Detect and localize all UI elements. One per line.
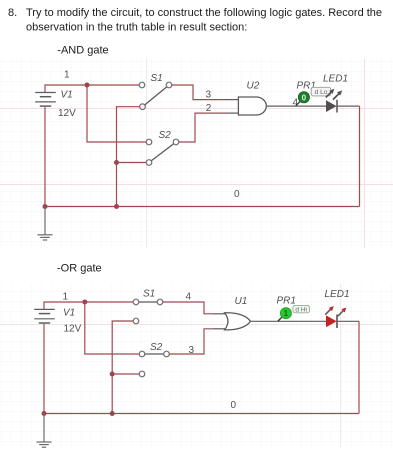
LED LED1 (off) [326,89,342,113]
wire battery minus down to ground rail [44,107,46,207]
svg-text:Try to modify the circuit, to: Try to modify the circuit, to construct … [26,7,382,19]
switch S2 [146,139,179,165]
pin stub U1 input B [213,328,227,330]
battery V1 [35,93,56,107]
svg-text:-AND gate: -AND gate [57,45,108,57]
svg-text:2: 2 [206,103,212,114]
switch S1 circuit 2 (closed up) [133,299,163,324]
probe readout d Hi [293,305,310,313]
wire S1 lower throw to ground rail [117,107,140,207]
ground lead circuit 1 [44,207,46,235]
pin stub U2 input A [226,99,238,101]
wire net4: U2 output to LED1 anode [266,105,326,107]
wire ground rail net 0 [45,206,360,208]
ground symbol circuit 1 [38,235,53,240]
svg-text:0: 0 [231,400,237,411]
probe readout d Lo [311,87,331,96]
switch S2 circuit 2 (closed up) [139,351,169,377]
pin stub U1 input A [213,313,227,315]
junction rail-switch branch circuit 2 [110,411,115,416]
probe PR1 pointer circuit 2 [278,317,282,321]
svg-text:d Lo: d Lo [315,89,328,96]
svg-text:1: 1 [64,70,70,81]
wire LED1 cathode to right corner [337,105,360,107]
svg-text:V1: V1 [61,90,73,101]
switch S1 [139,82,172,109]
svg-text:-OR gate: -OR gate [57,262,102,274]
svg-text:observation in the truth table: observation in the truth table in result… [26,22,247,34]
junction rail-switch branch [114,204,119,209]
pin stub U2 input B [226,112,238,114]
wire LED1 cathode to right corner circuit 2 [337,320,359,322]
svg-text:S1: S1 [143,289,155,300]
junction S2 lower branch [114,160,119,165]
junction rail-battery circuit 2 [42,411,47,416]
svg-text:LED1: LED1 [325,289,350,300]
svg-text:S1: S1 [151,73,163,84]
wire S1 lower throw to ground rail circuit 2 [112,321,133,414]
wire node1 down to S2 top throw [87,85,147,142]
svg-text:S2: S2 [150,342,163,353]
junction node1 circuit 2 [82,300,87,305]
wire right side down [359,106,361,206]
probe PR1 pointer [296,102,300,106]
svg-text:8.: 8. [8,7,17,19]
probe PR1 body [298,92,309,103]
svg-text:12V: 12V [64,324,82,335]
ground lead circuit 2 [43,414,45,443]
ground symbol circuit 2 [37,442,52,447]
junction node1 [85,83,90,88]
svg-text:PR1: PR1 [277,296,296,307]
wire net2: U1 output to LED1 anode [251,320,327,322]
wire net2: S2 pole to U2 input B [179,113,226,142]
svg-text:0: 0 [234,189,240,200]
probe PR1 body circuit 2 [280,308,291,319]
wire net4: S1 pole to U1 input A [163,302,213,314]
wire to S2 lower throw [117,162,147,164]
svg-text:U2: U2 [247,81,260,92]
svg-text:1: 1 [63,292,69,303]
svg-text:V1: V1 [63,308,75,319]
wire right side down circuit 2 [358,321,360,413]
svg-text:S2: S2 [159,130,172,141]
svg-text:4: 4 [186,292,192,303]
wire ground rail net 0 circuit 2 [44,413,359,415]
OR gate U1 [225,313,251,330]
svg-text:3: 3 [206,90,212,101]
battery V1 circuit 2 [34,309,55,323]
svg-text:d Hi: d Hi [295,306,307,313]
wire net3: S1 pole to U2 input A [172,85,226,100]
svg-text:3: 3 [189,345,195,356]
svg-text:U1: U1 [235,296,248,307]
svg-text:1: 1 [284,309,289,318]
svg-text:0: 0 [302,93,307,102]
wire node1 down to S2 top throw [85,302,140,354]
svg-text:12V: 12V [58,108,76,119]
svg-text:LED1: LED1 [323,74,348,85]
LED LED1 (on, red) [325,306,346,328]
junction rail-battery [43,204,48,209]
wire node1: battery plus to S1 throw [45,85,140,93]
wire node1: battery plus to S1 throw [44,302,134,309]
wire net3: S2 pole to U1 input B [169,329,213,354]
AND gate U2 [238,97,266,115]
wire battery minus down to ground rail circuit 2 [43,324,45,414]
wire to S2 lower throw circuit 2 [112,373,139,375]
junction S2 lower branch circuit 2 [110,372,115,377]
